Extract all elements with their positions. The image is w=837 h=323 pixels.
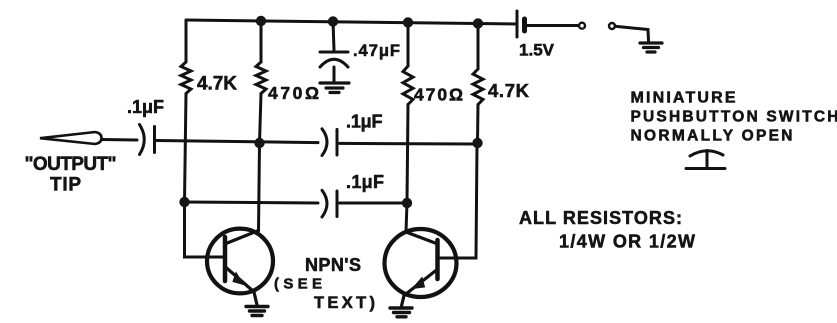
capacitor C2 0.1uF <box>322 129 337 156</box>
wire lower line C3 to Q2 collector node <box>340 202 408 205</box>
wire Q2 collector riser <box>406 203 407 233</box>
wire top supply rail <box>186 20 517 24</box>
label TIP <box>50 175 81 196</box>
wire C4 top lead <box>333 21 334 50</box>
wire R1 bottom lead down through output line <box>185 94 187 203</box>
switch terminal left <box>579 23 585 29</box>
transistor Q1 <box>207 229 273 305</box>
label OUTPUT <box>25 154 117 175</box>
wire R3 top lead <box>407 22 410 66</box>
svg-text:470Ω: 470Ω <box>414 85 463 105</box>
wire R1 top lead <box>185 20 188 62</box>
svg-text:PUSHBUTTON SWITCH: PUSHBUTTON SWITCH <box>631 109 837 126</box>
ground below C4 <box>320 83 349 93</box>
svg-text:.1μF: .1μF <box>346 112 383 132</box>
label (SEE <box>274 276 322 293</box>
label .1uF (C1) <box>127 97 164 117</box>
wire from node down to Q1 base <box>185 202 224 257</box>
svg-text:470Ω: 470Ω <box>268 83 319 103</box>
junction node lower-Q2 collector <box>402 198 412 208</box>
wire R3 bottom lead down to node <box>407 105 408 203</box>
label ALL RESISTORS: <box>519 208 682 228</box>
probe tip OUTPUT <box>40 132 102 144</box>
svg-text:TEXT): TEXT) <box>314 294 375 312</box>
junction node output-collector Q1 <box>254 138 264 148</box>
svg-text:TIP: TIP <box>50 175 81 196</box>
label PUSHBUTTON SWITCH <box>631 109 837 126</box>
junction node rail-C4 <box>328 16 338 26</box>
svg-text:1.5V: 1.5V <box>519 41 555 60</box>
junction node rail-R4 <box>473 18 483 28</box>
svg-text:MINIATURE: MINIATURE <box>631 90 736 107</box>
label .1uF (C2) <box>346 112 383 132</box>
label MINIATURE <box>631 90 736 107</box>
label NORMALLY OPEN <box>631 128 793 145</box>
label 470 ohm (R3) <box>414 85 463 105</box>
svg-text:.1μF: .1μF <box>127 97 164 117</box>
label 1.5V <box>519 41 555 60</box>
ground at switch <box>640 43 662 52</box>
switch terminal right <box>609 23 615 29</box>
svg-text:.47μF: .47μF <box>353 42 400 60</box>
capacitor C3 0.1uF <box>322 190 337 217</box>
transistor Q2 <box>385 229 457 306</box>
wire from node down to Q2 base <box>440 144 477 258</box>
resistor R1 4.7K left <box>181 62 191 94</box>
wire output line C2 to R4 node <box>340 142 478 146</box>
label TEXT) <box>314 294 375 312</box>
svg-text:"OUTPUT": "OUTPUT" <box>25 154 117 175</box>
wire R4 bottom lead to node <box>476 105 480 143</box>
junction node output-R4 <box>472 138 482 148</box>
svg-text:NPN'S: NPN'S <box>305 255 361 275</box>
capacitor C4 0.47uF <box>320 52 348 81</box>
junction node rail-R2 <box>256 16 266 26</box>
label NPN'S <box>305 255 361 275</box>
wire Q1 collector riser <box>259 143 260 231</box>
resistor R4 4.7K right <box>473 69 483 105</box>
wire R2 bottom lead to collector node <box>260 94 262 144</box>
wire output line to C1 <box>103 138 138 142</box>
svg-text:ALL RESISTORS:: ALL RESISTORS: <box>519 208 682 228</box>
svg-text:.1μF: .1μF <box>346 172 384 192</box>
wire R2 top lead <box>260 21 263 62</box>
svg-text:4.7K: 4.7K <box>197 74 237 95</box>
capacitor C1 0.1uF <box>140 125 155 155</box>
ground at Q1 emitter <box>246 307 268 316</box>
wire switch terminal to ground <box>615 26 649 41</box>
wire output line C1 to C2 <box>157 141 319 143</box>
battery B1 1.5V <box>517 11 525 37</box>
junction node rail-R3 <box>403 17 413 27</box>
label 470 ohm (R2) <box>268 83 319 103</box>
wire R4 top lead <box>477 24 480 69</box>
label .1uF (C3) <box>346 172 384 192</box>
junction node lower-R1 <box>179 197 189 207</box>
pushbutton symbol <box>686 151 725 169</box>
svg-text:NORMALLY OPEN: NORMALLY OPEN <box>631 128 793 145</box>
label 4.7K (R1) <box>197 74 237 95</box>
resistor R2 470 ohm left <box>256 62 266 94</box>
label 1/4W OR 1/2W <box>559 232 695 252</box>
wire battery to switch terminal <box>527 24 579 27</box>
wire lower coupling line from node to C3 <box>185 202 319 203</box>
label .47uF (C4) <box>353 42 400 60</box>
ground at Q2 emitter <box>390 308 412 317</box>
label 4.7K (R4) <box>488 80 530 101</box>
resistor R3 470 ohm right <box>403 66 413 105</box>
svg-text:4.7K: 4.7K <box>488 80 530 101</box>
